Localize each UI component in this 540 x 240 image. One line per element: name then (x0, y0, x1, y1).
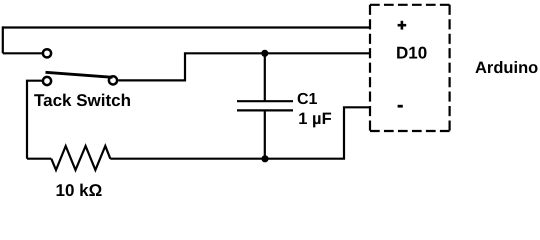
switch SW1 right terminal circle (109, 76, 117, 84)
svg-text:1 µF: 1 µF (298, 110, 331, 128)
pin label: + (drawn plus sign) (401, 21, 404, 30)
wire: stub to upper switch terminal (3, 52, 42, 54)
pin label: - (drawn minus sign) (398, 105, 403, 108)
capacitor C1 bottom plate (237, 109, 293, 111)
switch upper terminal circle (43, 49, 51, 57)
Arduino box top edge (dashed) (370, 4, 450, 6)
svg-text:10 kΩ: 10 kΩ (56, 181, 103, 197)
svg-text:D10: D10 (396, 44, 427, 63)
wire: bottom net to Arduino minus pin (110, 107, 369, 158)
wire: top net from Arduino + pin to left side (3, 26, 370, 28)
junction node: capacitor top on D10 net (261, 50, 268, 57)
wire: capacitor C1 bottom lead (264, 110, 266, 158)
wire: bottom net left segment to resistor (27, 158, 51, 160)
Arduino box right edge (dashed) (449, 5, 451, 131)
svg-text:Tack Switch: Tack Switch (34, 91, 131, 110)
svg-text:C1: C1 (297, 91, 318, 108)
Arduino box left edge (dashed) (369, 5, 371, 131)
capacitor C1 top plate (237, 100, 293, 102)
resistor R1 zigzag body (51, 146, 110, 170)
svg-text:Arduino: Arduino (475, 59, 538, 77)
switch SW1 lever arm (46, 72, 113, 77)
wire: from switch left terminal down to resistor (27, 81, 42, 159)
wire: switch right terminal to D10 net (118, 53, 369, 80)
wire: capacitor C1 top lead (264, 53, 266, 101)
switch SW1 left terminal circle (43, 77, 51, 85)
junction node: capacitor bottom on ground net (261, 155, 268, 162)
Arduino box bottom edge (dashed) (370, 130, 450, 132)
wire: left vertical drop (2, 26, 4, 53)
